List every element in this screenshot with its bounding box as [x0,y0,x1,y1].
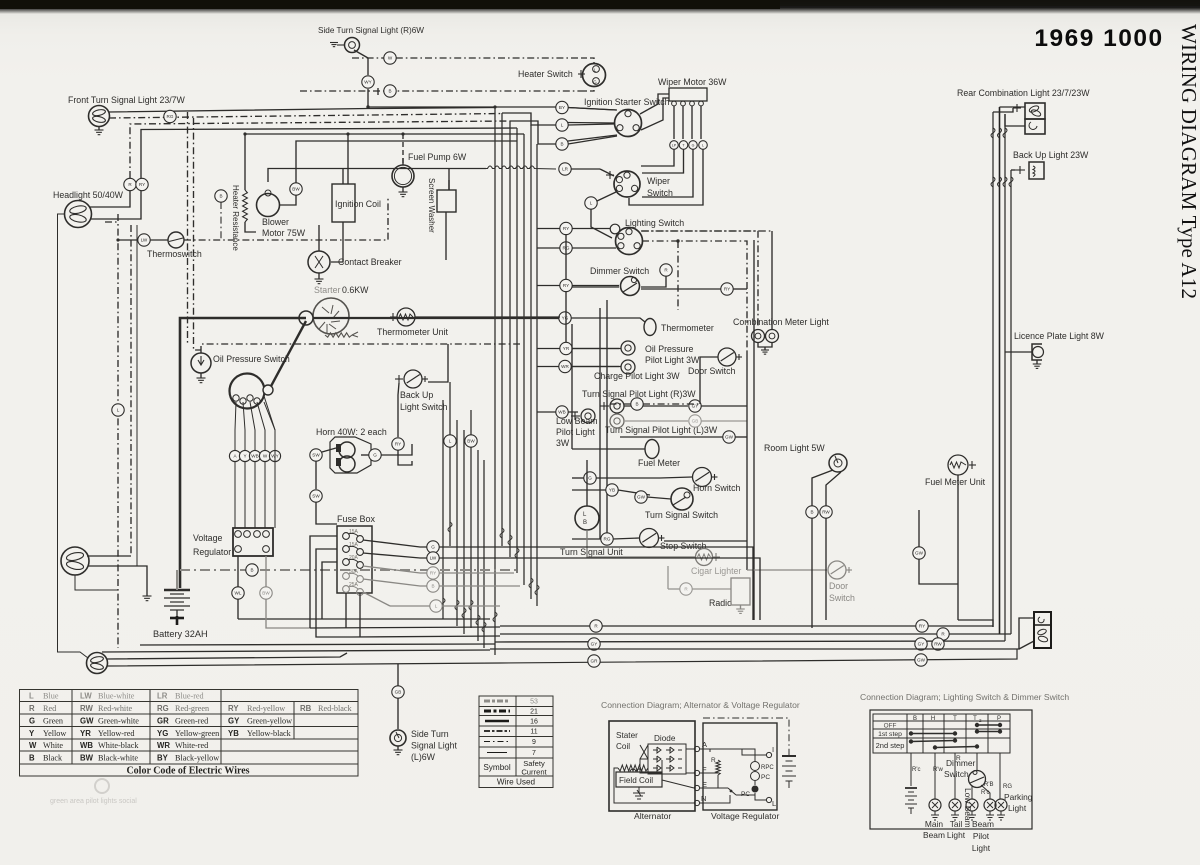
side turn L ground [397,746,399,750]
bottom bundle right y642 [495,641,1005,642]
wire YR branch [537,348,619,350]
svg-text:BW: BW [292,187,300,192]
color code table rows [29,692,204,701]
wire ignition coil top [342,168,344,184]
svg-text:WY: WY [364,80,371,85]
wire thermoswitch to heater resistance [184,198,388,240]
node R dimmer [660,264,672,276]
svg-text:White-red: White-red [175,741,208,750]
wire heater resistance top [244,134,246,190]
alternator box [609,721,695,811]
node SW horn [310,449,322,461]
svg-text:Light Switch: Light Switch [400,402,448,412]
door switch 1 [718,348,742,366]
fuel pump ground [402,187,404,192]
node RY dimmer right [721,283,733,295]
svg-text:WIRING DIAGRAM Type A12: WIRING DIAGRAM Type A12 [1177,24,1200,299]
svg-text:White-black: White-black [98,741,139,750]
svg-text:Black-yellow: Black-yellow [175,754,219,763]
svg-text:Green-red: Green-red [175,717,208,726]
wire GB gray [624,420,688,422]
rear combination light [1025,103,1045,134]
vertical pair to bundle RY [141,128,517,178]
bottom bundle right y649 [490,618,1034,649]
svg-text:Back Up Light 23W: Back Up Light 23W [1013,150,1089,160]
wiper wires to switch [641,150,674,167]
wire VR E down gray [265,556,267,587]
svg-text:Green: Green [43,717,63,726]
dimmer to lamps wires [971,786,973,799]
svg-text:Back Up: Back Up [400,390,433,400]
wire to thermoswitch [118,239,168,241]
wire lighting switch second run [641,231,758,328]
alternator wire labels [229,450,240,461]
svg-text:RY: RY [563,226,569,231]
wire fuel pump top [402,158,404,165]
junction headlight to lower run [117,214,119,648]
wire heater switch top bend [582,58,594,64]
node GY [689,400,701,412]
svg-text:RB: RB [300,704,312,713]
svg-text:Blower: Blower [262,217,289,227]
room light [829,454,847,472]
VR terminals I and L [766,752,771,757]
voltage regulator diagram box [703,723,777,810]
wire WB branch [537,411,578,413]
ignition coil top stem [347,134,349,184]
svg-text:R'w: R'w [933,767,943,773]
svg-text:WB: WB [251,454,258,459]
wire RY to door column [733,288,747,290]
front turn signal lamp [89,106,110,127]
thermoswitch symbol [168,232,184,248]
wire B door dash [643,403,700,405]
node R [124,178,136,190]
starter winding [325,333,352,337]
svg-text:R: R [711,757,716,764]
harness break squiggles [991,128,995,138]
svg-text:L: L [117,408,120,413]
screen washer [437,190,456,212]
svg-text:LW: LW [430,556,437,561]
rear connector [1034,612,1051,648]
node L gray bottom [430,600,442,612]
svg-text:RW: RW [80,704,93,713]
svg-text:Voltage: Voltage [193,533,222,543]
svg-text:GY: GY [228,717,240,726]
svg-text:Red-white: Red-white [98,704,132,713]
svg-text:Field Coil: Field Coil [619,776,653,785]
battery to bundle wire [176,570,178,590]
svg-text:L: L [772,799,776,808]
svg-text:RW: RW [934,642,942,647]
svg-text:Black: Black [43,754,63,763]
svg-text:Y: Y [243,454,246,459]
wire radio drop [667,566,669,589]
node B room [806,506,818,518]
node WR [559,360,571,372]
node L wiper [699,141,708,150]
fuel meter unit [948,455,968,475]
svg-text:30A: 30A [349,569,359,575]
svg-text:Beam: Beam [972,819,994,829]
svg-text:B: B [810,510,813,515]
state table contacts 1st step [909,731,913,735]
node G fuse [427,541,439,553]
svg-text:B: B [635,402,638,407]
svg-text:Main: Main [925,819,943,829]
bottom bundle right y626 [500,625,993,627]
svg-text:LW: LW [141,238,148,243]
svg-text:Battery 32AH: Battery 32AH [153,629,208,639]
wire GY to column [701,405,747,407]
node RG lighting [560,242,572,254]
wire stop switch run [572,538,601,540]
node WB [556,406,568,418]
wire screen washer top [448,180,450,190]
svg-text:(L)6W: (L)6W [411,752,436,762]
wire RY dimmer branch [537,285,619,287]
svg-text:YR: YR [80,729,91,738]
svg-text:Yellow: Yellow [43,729,66,738]
node L lighting [585,197,597,209]
svg-text:Yellow-red: Yellow-red [98,729,134,738]
connection diagram battery [782,756,796,781]
color code table [20,690,359,777]
svg-text:Charge Pilot Light 3W: Charge Pilot Light 3W [594,371,680,381]
turn signal unit [575,506,599,530]
wire comb meter feed [771,231,773,329]
wire blower top [268,169,280,183]
node RY fuse [427,567,439,579]
node SW horn 2 [310,490,322,502]
turn signal pilot L bulb [610,414,624,428]
svg-text:LR: LR [157,692,168,701]
svg-text:G: G [29,717,35,726]
ignition coil [332,184,355,222]
node L left [112,404,124,416]
svg-text:RY: RY [724,287,730,292]
fuse box [337,526,372,593]
door column vertical [746,352,748,570]
room light wires down [812,470,833,628]
node G mid [584,472,596,484]
svg-text:B: B [29,754,35,763]
node WY [362,76,374,88]
VR relay coil RPC [751,762,760,793]
svg-text:Blue-red: Blue-red [175,692,204,701]
svg-text:I: I [772,745,774,754]
back up light switch arrow left [395,378,403,380]
node B fuse [427,580,439,592]
svg-text:Red-yellow: Red-yellow [247,704,285,713]
symbol glyph row1 gray heavy dash [484,700,510,703]
licence plate light ground [1036,360,1038,364]
wire radio [668,588,680,590]
field coil box [616,772,662,787]
lighting switch [616,228,643,255]
svg-text:Door: Door [829,581,848,591]
svg-text:Side Turn: Side Turn [411,729,449,739]
svg-text:Screen Washer: Screen Washer [427,178,436,233]
svg-text:GW: GW [637,495,646,500]
side turn L feed junction [397,664,399,686]
svg-text:BW: BW [80,754,94,763]
alternator [230,374,274,409]
svg-text:15A: 15A [349,542,359,548]
fuel meter [645,440,659,459]
svg-text:BW: BW [262,591,270,596]
svg-text:Y: Y [29,729,35,738]
svg-text:RY: RY [430,571,436,576]
symbol glyph row3 solid thick [485,720,509,723]
wire RG branch [537,247,616,249]
svg-text:YG: YG [157,729,168,738]
svg-text:Ignition Coil: Ignition Coil [335,199,381,209]
svg-text:Switch: Switch [944,769,969,779]
bottom left lamp [87,653,108,674]
svg-text:Wire Used: Wire Used [497,778,536,787]
svg-text:25A: 25A [349,582,359,588]
wire cigar lighter left [587,530,695,557]
wire from heater switch B terminal [582,87,594,92]
svg-text:P: P [997,716,1001,722]
wire dimmer to RY right [572,286,619,288]
node WL [232,587,244,599]
node L spine [444,435,456,447]
bottom bundle left y652 [102,650,490,652]
svg-text:SW: SW [312,453,320,458]
door switch 2 [828,561,852,579]
lighting diagram outer box [870,710,1032,829]
svg-text:Parking: Parking [1004,792,1033,802]
svg-text:Beam: Beam [923,830,945,840]
wire oil pressure pilot [572,348,621,350]
oil pressure switch ground [200,373,202,378]
wire to horn switch [660,477,692,478]
wire WL to bundle [237,599,239,619]
svg-text:Room Light 5W: Room Light 5W [764,443,825,453]
fuse wires left [310,536,337,628]
node LP [670,141,679,150]
VR terminal A wire [700,749,710,752]
lighting switch terminal [610,224,620,234]
svg-text:Dimmer Switch: Dimmer Switch [590,266,649,276]
node LR [559,163,571,175]
node T [679,141,688,150]
svg-text:G: G [373,453,377,458]
wire rear comb top feeds [993,108,1013,112]
svg-text:Connection Diagram; Lighting S: Connection Diagram; Lighting Switch & Di… [860,692,1069,702]
stater coil winding [618,765,648,771]
headlight 2 (lower) [61,547,89,575]
svg-text:RY: RY [563,283,569,288]
svg-text:GY: GY [591,642,598,647]
wire back up light feed [1011,169,1015,171]
cigar lighter [696,549,713,566]
wiper motor wires down [673,106,675,139]
svg-text:Contact Breaker: Contact Breaker [338,257,402,267]
node L ignition [556,119,568,131]
node GR bottom [588,655,600,667]
turn signal switch [671,488,693,510]
node RY bottom [916,620,928,632]
svg-text:Red: Red [43,704,56,713]
wire SW2 down [316,502,337,524]
svg-text:Heater Resistance: Heater Resistance [231,185,240,251]
cigar lighter arrow [713,556,720,558]
svg-text:YR: YR [563,346,570,351]
svg-text:Turn Signal Unit: Turn Signal Unit [560,547,623,557]
node LW fuse [427,552,439,564]
svg-text:B: B [583,520,587,526]
field coil ground [638,787,640,793]
svg-text:RY: RY [139,182,145,187]
wire charge pilot [571,366,621,368]
wire H column [934,753,936,799]
svg-text:B: B [560,142,563,147]
svg-text:Oil Pressure Switch: Oil Pressure Switch [213,354,290,364]
node GW right [723,431,735,443]
wire BY to ignition switch [568,108,617,111]
svg-text:RY: RY [395,442,401,447]
svg-text:L: L [435,604,438,609]
fuse box bottom wires [345,593,347,628]
svg-text:WR: WR [157,741,170,750]
wire WR branch [537,366,619,368]
svg-text:Lighting Switch: Lighting Switch [625,218,684,228]
wiper motor terminals [672,101,704,106]
wire bottom left lamp upper [107,653,347,659]
LR loop line from blower [280,168,486,170]
wire BW to bundle [266,599,310,628]
node B ignition [556,138,568,150]
node B battery [246,564,258,576]
ground headlight2 [143,596,152,601]
radio box [731,578,750,605]
svg-text:W: W [388,56,393,61]
svg-text:Horn 40W: 2 each: Horn 40W: 2 each [316,427,387,437]
svg-text:Wiper Motor 36W: Wiper Motor 36W [658,77,727,87]
wire stub above side turn [377,88,379,95]
distribution line y107 [368,106,556,108]
wire ignition coil bottom [331,222,343,262]
svg-text:Licence Plate Light 8W: Licence Plate Light 8W [1014,331,1105,341]
alternator output wires [235,402,236,528]
wire T2 column [976,753,978,770]
svg-text:RG: RG [157,704,169,713]
svg-text:GB: GB [692,419,699,424]
svg-text:L: L [702,144,704,148]
wire horn to G [361,454,369,456]
wire GB down [397,698,399,729]
svg-text:RY: RY [228,704,239,713]
wire blower to BW [280,195,297,205]
symbol glyph row4 dashes [484,730,510,732]
svg-text:Light: Light [972,843,991,853]
svg-text:Side Turn Signal Light (R)6W: Side Turn Signal Light (R)6W [318,26,424,35]
wire headlight2 upper [87,555,131,557]
svg-text:Pilot Light 3W: Pilot Light 3W [645,355,700,365]
svg-text:Current: Current [521,768,547,777]
svg-text:W: W [29,741,37,750]
node R bottom2 [937,628,949,640]
svg-text:0.6KW: 0.6KW [342,285,369,295]
fuse wires right [363,540,427,547]
svg-text:GW: GW [725,435,734,440]
svg-text:Radio: Radio [709,598,732,608]
node RW room [820,506,832,518]
svg-text:Low Beam: Low Beam [556,416,598,426]
alternator terminals A F E N [694,746,699,805]
distribution line y113 to L [502,113,556,125]
low beam pilot arrow [571,415,580,417]
svg-text:H: H [931,716,935,722]
fuel pump [392,165,414,187]
heater switch arrow [578,73,585,75]
svg-text:R'c: R'c [912,767,920,773]
field coil winding bumps [630,769,642,772]
svg-text:Light: Light [1008,803,1027,813]
back up light arrow [1015,169,1025,171]
bottom bundle right y634 [500,633,1011,635]
blower motor [257,190,280,217]
node YB [606,484,618,496]
svg-text:Green-yellow: Green-yellow [247,717,292,726]
svg-text:2nd step: 2nd step [876,741,905,750]
node BW regulator [260,587,272,599]
heater resistance element [243,190,248,222]
wire door switch 1 down [700,357,718,404]
rear connector diagonal [1019,641,1034,649]
symbol glyph row5 dash-dot [484,741,510,743]
svg-text:Fuse Box: Fuse Box [337,514,376,524]
svg-text:21: 21 [530,709,538,716]
svg-text:BY: BY [559,105,565,110]
feed line y134 [245,133,524,135]
alternator internal wires [686,748,694,750]
node GW turn signal [635,491,647,503]
wire turn signal unit top [586,460,588,506]
node RY dimmer [560,279,572,291]
svg-text:15A: 15A [349,529,359,535]
svg-text:BY: BY [157,754,169,763]
node R radio [680,583,692,595]
wire contact breaker up [318,225,320,251]
distribution line y121 to B [510,121,556,144]
wire back up switch right [428,344,448,382]
node BY [556,101,568,113]
svg-text:Combination Meter Light: Combination Meter Light [733,317,829,327]
svg-text:1st step: 1st step [878,731,902,738]
svg-text:WL: WL [235,591,242,596]
wire headlight RY [91,191,141,219]
node RY lighting [560,222,572,234]
svg-text:Regulator: Regulator [193,547,231,557]
svg-text:BW: BW [467,439,475,444]
oil pressure pilot bulb [621,341,635,355]
label column vertical links [565,234,567,279]
fuse outputs to spine [439,547,753,620]
svg-text:Blue-white: Blue-white [98,692,135,701]
wire SW to horn [322,448,336,452]
radio ground [740,605,742,609]
svg-text:Cigar Lighter: Cigar Lighter [691,566,741,576]
fuel meter unit lead [969,464,976,466]
wire GW fuel sender [918,510,920,547]
back up light [1029,162,1044,179]
wire thermometer unit right [415,316,560,318]
